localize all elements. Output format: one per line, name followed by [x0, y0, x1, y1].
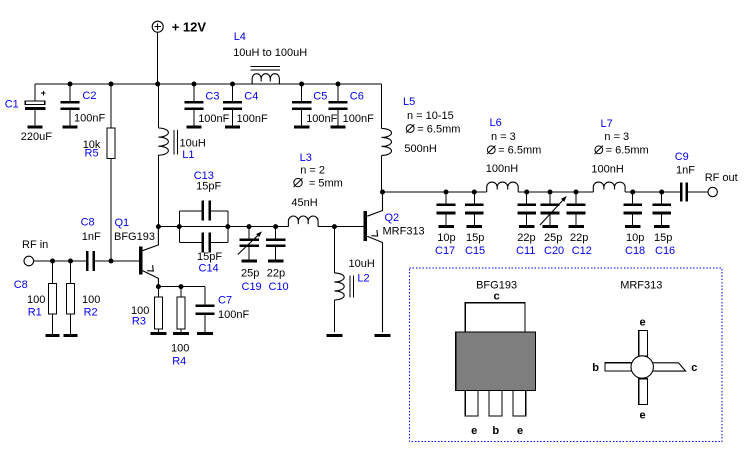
svg-text:L5: L5	[403, 96, 415, 108]
svg-text:b: b	[592, 362, 599, 374]
svg-text:Q1: Q1	[115, 217, 130, 229]
svg-text:R3: R3	[132, 316, 146, 328]
svg-text:10uH: 10uH	[180, 138, 206, 150]
svg-text:c: c	[691, 362, 697, 374]
svg-text:100nF: 100nF	[306, 113, 337, 125]
svg-text:10p: 10p	[437, 232, 455, 244]
svg-text:C9: C9	[675, 151, 689, 163]
svg-text:= 6.5mm: = 6.5mm	[498, 145, 541, 157]
svg-text:100nF: 100nF	[343, 113, 374, 125]
svg-text:L4: L4	[234, 31, 246, 43]
svg-text:C2: C2	[82, 90, 96, 102]
svg-text:BFG193: BFG193	[114, 231, 155, 243]
svg-text:C4: C4	[244, 91, 258, 103]
svg-text:Q2: Q2	[385, 212, 400, 224]
svg-text:e: e	[639, 409, 645, 421]
svg-text:C6: C6	[350, 91, 364, 103]
svg-text:R2: R2	[84, 306, 98, 318]
svg-text:C1: C1	[5, 99, 19, 111]
svg-text:C20: C20	[544, 245, 564, 257]
svg-text:C7: C7	[218, 295, 232, 307]
svg-text:C8: C8	[81, 217, 95, 229]
svg-text:15pF: 15pF	[197, 251, 222, 263]
svg-text:100: 100	[27, 294, 45, 306]
svg-text:25p: 25p	[241, 268, 259, 280]
svg-text:b: b	[492, 425, 499, 437]
svg-text:RF in: RF in	[22, 239, 48, 251]
svg-text:+ 12V: + 12V	[172, 20, 207, 35]
svg-text:10p: 10p	[626, 232, 644, 244]
svg-text:R5: R5	[85, 148, 99, 160]
svg-text:15p: 15p	[654, 232, 672, 244]
svg-text:= 6.5mm: = 6.5mm	[417, 123, 460, 135]
svg-text:R1: R1	[28, 306, 42, 318]
svg-text:1nF: 1nF	[82, 231, 101, 243]
svg-text:L7: L7	[601, 118, 613, 130]
svg-text:C18: C18	[625, 245, 645, 257]
svg-text:22p: 22p	[570, 232, 588, 244]
svg-text:c: c	[493, 290, 499, 302]
svg-text:C15: C15	[465, 245, 485, 257]
svg-text:25p: 25p	[544, 232, 562, 244]
svg-text:C17: C17	[435, 245, 455, 257]
svg-text:100nH: 100nH	[591, 164, 623, 176]
svg-text:10uH: 10uH	[349, 258, 375, 270]
svg-text:1nF: 1nF	[676, 165, 695, 177]
svg-text:500nH: 500nH	[404, 143, 436, 155]
svg-text:220uF: 220uF	[21, 131, 52, 143]
svg-text:C11: C11	[516, 245, 535, 257]
svg-text:n = 3: n = 3	[604, 131, 629, 143]
svg-text:L6: L6	[490, 117, 502, 129]
svg-text:= 5mm: = 5mm	[309, 178, 343, 190]
svg-text:22p: 22p	[517, 232, 535, 244]
svg-text:L1: L1	[182, 149, 194, 161]
svg-text:RF out: RF out	[705, 172, 738, 184]
svg-text:MRF313: MRF313	[620, 279, 662, 291]
svg-text:e: e	[517, 425, 523, 437]
svg-text:L2: L2	[357, 273, 369, 285]
svg-text:C3: C3	[205, 91, 219, 103]
svg-text:C10: C10	[269, 281, 289, 293]
svg-text:C12: C12	[572, 245, 592, 257]
svg-text:C19: C19	[242, 281, 262, 293]
svg-text:e: e	[639, 316, 645, 328]
svg-text:100nF: 100nF	[74, 112, 105, 124]
svg-text:n = 2: n = 2	[300, 165, 325, 177]
svg-text:e: e	[471, 425, 477, 437]
svg-text:15p: 15p	[466, 232, 484, 244]
svg-text:C14: C14	[199, 262, 219, 274]
svg-text:100nF: 100nF	[237, 113, 268, 125]
svg-text:10uH to 100uH: 10uH to 100uH	[233, 47, 307, 59]
svg-text:100nF: 100nF	[218, 309, 249, 321]
svg-text:100nF: 100nF	[198, 113, 229, 125]
svg-text:45nH: 45nH	[291, 197, 317, 209]
svg-text:C8: C8	[14, 279, 28, 291]
svg-text:22p: 22p	[267, 268, 285, 280]
svg-text:L3: L3	[300, 152, 312, 164]
svg-text:100: 100	[171, 343, 189, 355]
svg-text:100nH: 100nH	[486, 163, 518, 175]
svg-text:15pF: 15pF	[196, 181, 221, 193]
svg-text:MRF313: MRF313	[383, 226, 425, 238]
svg-text:C5: C5	[313, 91, 327, 103]
svg-text:100: 100	[82, 294, 100, 306]
svg-text:= 6.5mm: = 6.5mm	[606, 145, 649, 157]
svg-text:n = 10-15: n = 10-15	[407, 110, 454, 122]
svg-text:n = 3: n = 3	[491, 131, 516, 143]
svg-text:C16: C16	[655, 245, 675, 257]
svg-text:R4: R4	[172, 356, 186, 368]
